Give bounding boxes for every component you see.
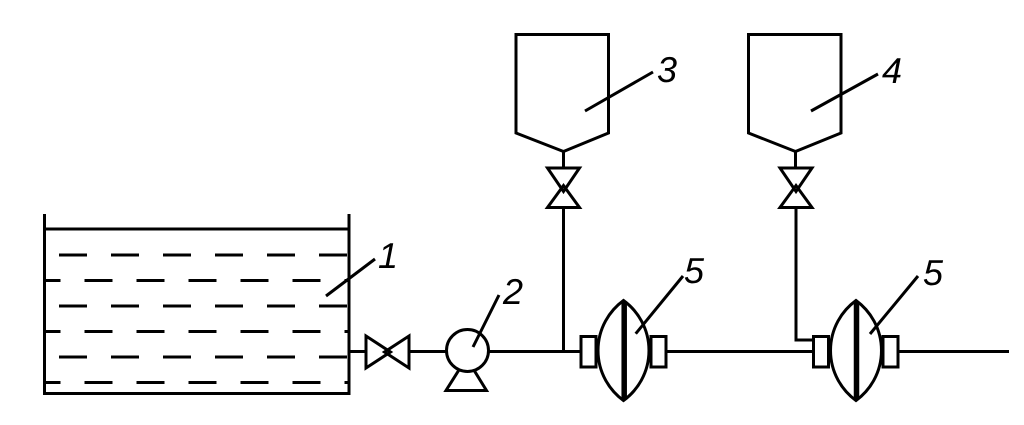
leader line for label 3: [585, 72, 653, 111]
tank 1 liquid dashes row 4: [45, 330, 348, 333]
valve V1 left triangle: [366, 336, 391, 368]
label 1: [379, 243, 395, 268]
tank 1 bottom: [43, 392, 351, 395]
valve V3 top triangle: [548, 168, 580, 192]
pump 2 base triangle: [446, 358, 487, 391]
pump 2 circle: [447, 330, 489, 372]
label 4: [882, 58, 900, 83]
wire pump to mixer 1: [489, 350, 582, 353]
tank 1 liquid dashes row 2: [45, 279, 348, 282]
mixer 5a lens body: [598, 301, 649, 401]
tank 1 liquid dashes row 6: [45, 381, 348, 384]
leader line for label 4: [811, 74, 878, 111]
valve V4 top triangle: [780, 168, 812, 192]
valve V4 bottom triangle: [780, 186, 812, 208]
mixer 5a right flange: [651, 337, 666, 368]
wire mixer 2 outlet: [898, 350, 1009, 353]
leader line for label 2: [473, 295, 499, 347]
tank 1 left wall: [43, 214, 46, 395]
wire valve to pump: [409, 350, 447, 353]
leader line for label 5b: [870, 276, 918, 334]
valve V3 bottom triangle: [548, 186, 580, 208]
tank 1 liquid dashes row 5: [45, 356, 348, 359]
label 3: [658, 57, 677, 82]
label 2: [503, 279, 523, 304]
hopper 4 body: [749, 33, 842, 169]
wire tank outlet to valve: [349, 350, 366, 353]
label 5b: [924, 260, 943, 285]
mixer 5b left flange: [814, 337, 829, 368]
mixer 5b membrane bar: [854, 302, 860, 399]
hopper 3 body: [516, 33, 609, 169]
mixer 5a membrane bar: [621, 302, 627, 399]
wire hopper 4 drop line: [796, 208, 814, 341]
tank 1 liquid dashes row 1: [45, 254, 348, 257]
wire hopper 3 drop line to main pipe: [562, 208, 565, 352]
tank 1 right wall: [348, 214, 351, 395]
tank 1 liquid dashes row 3: [45, 305, 348, 308]
leader line for label 5a: [636, 276, 683, 334]
mixer 5b lens body: [831, 301, 882, 401]
leader line for label 1: [326, 259, 375, 296]
mixer 5b right flange: [883, 337, 898, 368]
label 5a: [685, 258, 704, 283]
valve V1 right triangle: [385, 336, 410, 368]
wire mixer 1 to mixer 2: [666, 350, 814, 353]
mixer 5a left flange: [581, 337, 596, 368]
tank 1 liquid surface: [45, 228, 350, 231]
